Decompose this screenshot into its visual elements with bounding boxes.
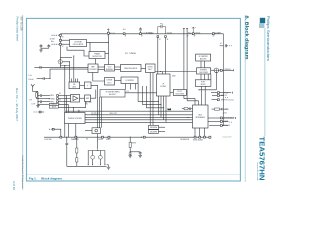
dots continuation DGND bbox=[123, 28, 126, 31]
node dot 1 bbox=[37, 98, 38, 99]
svg-text:35: 35 bbox=[59, 93, 61, 95]
pin SWPORT1b bbox=[102, 136, 104, 138]
arrow stereo to soft mute b bbox=[203, 74, 205, 80]
svg-text:DEMODULATOR: DEMODULATOR bbox=[124, 67, 138, 70]
wire tank bus into interface 2 bbox=[187, 101, 198, 105]
wire VCO to demodulator a bbox=[115, 66, 121, 68]
wire divider to divide-by-2 bbox=[93, 73, 105, 82]
svg-text:ADJUST: ADJUST bbox=[109, 93, 116, 96]
wire to stop level block bbox=[38, 103, 49, 105]
svg-text:DECODER: DECODER bbox=[176, 94, 185, 96]
svg-text:kHz: kHz bbox=[85, 104, 88, 106]
svg-text:VCCREF: VCCREF bbox=[214, 32, 221, 34]
mute amplifier block bbox=[92, 128, 101, 134]
wire demodulator to level adc bbox=[141, 67, 146, 69]
svg-text:BUSENABLE: BUSENABLE bbox=[224, 117, 235, 120]
ground bottom bbox=[107, 165, 111, 169]
svg-text:38: 38 bbox=[187, 36, 189, 38]
wire pin to oscillator 2 bbox=[61, 43, 69, 45]
wire adder to pin bbox=[218, 69, 220, 71]
wire XTAL column bbox=[59, 34, 61, 68]
adder A1 bbox=[214, 68, 219, 73]
wire to mute amp bbox=[85, 130, 92, 132]
wire bus interface bottom 1 bbox=[194, 128, 196, 136]
svg-text:DECODER: DECODER bbox=[199, 72, 208, 74]
wire down into tuning system bbox=[72, 108, 74, 113]
pin HGND bbox=[204, 136, 206, 138]
node dot 2 bbox=[37, 104, 38, 105]
svg-text:012aaa567: 012aaa567 bbox=[223, 136, 232, 138]
node dot RC bbox=[130, 151, 131, 152]
wire stereo decoder drop b bbox=[210, 74, 212, 80]
wire second bus down bbox=[66, 96, 68, 113]
wire integrator out bbox=[91, 85, 98, 127]
capacitor C1 bbox=[47, 44, 50, 48]
pin TIMEPLL bbox=[220, 69, 222, 71]
wire IF amp to stereo decoder b bbox=[203, 61, 205, 68]
FM demodulator block bbox=[121, 65, 142, 72]
pin VCCD with capacitor bbox=[140, 33, 142, 35]
wire test stub 2 bbox=[186, 28, 188, 100]
svg-text:8. Block diagram: 8. Block diagram bbox=[243, 16, 249, 60]
wire LNA to mixer bbox=[80, 97, 85, 99]
capacitor C12 bbox=[129, 153, 132, 156]
varactor Q1 bbox=[58, 60, 62, 64]
wire counter drops to IF adjust 3 bbox=[135, 84, 137, 90]
wire tuning top stub bbox=[78, 110, 80, 113]
svg-text:SWPORT1 21 kΩ: SWPORT1 21 kΩ bbox=[221, 99, 234, 101]
pin DGND with dots bbox=[123, 33, 125, 35]
svg-text:31: 31 bbox=[125, 36, 127, 38]
pin VCCREF bbox=[212, 33, 214, 35]
node dot vcca wire bbox=[108, 53, 109, 54]
wire level adc to de-emphasis 1 bbox=[149, 73, 151, 126]
svg-text:32,768: 32,768 bbox=[50, 39, 55, 41]
wire tuning bottom 1 bbox=[68, 124, 70, 138]
wire stereo decoder drop a bbox=[207, 74, 209, 80]
reference divider block bbox=[88, 64, 98, 73]
wire reference to divider bbox=[41, 66, 89, 68]
level ADC block bbox=[146, 64, 156, 73]
svg-text:MPX OUT: MPX OUT bbox=[110, 113, 117, 115]
VCO block bbox=[105, 65, 115, 72]
svg-text:16: 16 bbox=[62, 36, 64, 38]
wire oscillator output to junction bbox=[87, 43, 91, 52]
crystal oscillator block U1 bbox=[70, 40, 87, 47]
node dot AGC 2 bbox=[69, 61, 70, 62]
wire drop into IF filter bbox=[161, 72, 163, 75]
wire VCO to demodulator b bbox=[115, 68, 121, 70]
node dot staircase 2 bbox=[161, 104, 162, 105]
svg-text:PHASEFIL: PHASEFIL bbox=[71, 138, 79, 141]
svg-text:REF: REF bbox=[91, 66, 94, 68]
wire level adc to stereo decoder bbox=[155, 71, 196, 73]
wire mute amp down bbox=[97, 134, 99, 150]
wire caps common bbox=[41, 47, 49, 49]
Philips logo light square bbox=[259, 23, 264, 28]
svg-text:37: 37 bbox=[159, 39, 161, 41]
pin VCCA bbox=[107, 32, 109, 34]
VCO tank circuit L2 C6 bbox=[158, 24, 166, 34]
divide-by-2 block bbox=[105, 78, 115, 86]
LNA block with amp triangle bbox=[71, 95, 80, 103]
dashed pin stub lower left bbox=[49, 128, 61, 137]
node column bbox=[37, 92, 39, 106]
soft mute block bbox=[195, 80, 211, 87]
wire stub left of C4 bbox=[37, 78, 44, 80]
svg-text:© Koninklijke Philips Electron: © Koninklijke Philips Electronics N.V. 2… bbox=[21, 155, 24, 188]
dots continuation AFR bbox=[225, 96, 228, 99]
svg-text:DIVIDER: DIVIDER bbox=[90, 69, 98, 71]
staircase wire counter out 1 bbox=[138, 84, 158, 102]
node dots bottom bbox=[88, 164, 89, 165]
svg-text:34: 34 bbox=[59, 100, 61, 102]
wire osc bottom down left column bbox=[67, 47, 89, 57]
RC branch right: resistor R2 bbox=[129, 137, 136, 153]
pilot decoder block bbox=[173, 90, 186, 96]
tick test wire 1 bbox=[183, 27, 185, 29]
Philips logo dark square bbox=[260, 18, 265, 23]
svg-text:RFI1: RFI1 bbox=[50, 95, 54, 97]
svg-text:Philips Semiconductors: Philips Semiconductors bbox=[266, 16, 270, 61]
de-emphasis block right bbox=[149, 130, 159, 134]
svg-text:Fig 1.: Fig 1. bbox=[29, 176, 37, 180]
wire VCOTANK2 down to IF filter bbox=[165, 37, 167, 74]
dashed stub left low bbox=[34, 111, 44, 113]
long wire tuning to bus 4 bbox=[85, 121, 193, 123]
wire bus interface bottom 3 bbox=[203, 128, 205, 136]
pin PHASEFIL bbox=[75, 136, 77, 138]
svg-text:28: 28 bbox=[141, 36, 143, 38]
svg-text:LOOPSW: LOOPSW bbox=[44, 139, 52, 141]
svg-text:DIVIDE: DIVIDE bbox=[107, 80, 114, 82]
bottom rail bbox=[44, 136, 209, 138]
wire lower into divider bbox=[44, 69, 88, 78]
capacitor C7 decoupling right rail bbox=[220, 44, 228, 47]
wire IF adjust to IF filter bbox=[125, 92, 157, 94]
node dot osc to vcca line bbox=[108, 42, 109, 43]
wire adder down feedback bbox=[199, 72, 216, 90]
pin VCOTANK1 bbox=[157, 36, 159, 38]
caption separator rule bbox=[27, 174, 240, 176]
wire bus interface bottom 2 bbox=[199, 128, 201, 136]
svg-text:LEVEL: LEVEL bbox=[148, 66, 153, 68]
node dot bus wire bbox=[187, 117, 188, 118]
crystal X1 dashed connection top bbox=[52, 34, 60, 36]
wire RFGND to LNA bbox=[58, 98, 70, 100]
wire RFI2 to LNA bbox=[58, 101, 70, 103]
wire bus down to AGC 2 bbox=[68, 62, 70, 82]
stereo decoder block bbox=[197, 68, 211, 74]
dots continuation right cap bbox=[229, 44, 232, 47]
wire pin to oscillator 1 bbox=[61, 39, 69, 41]
antenna ANT1 bbox=[31, 84, 35, 91]
svg-text:DE-EMPH: DE-EMPH bbox=[150, 132, 157, 134]
node dot row3 bbox=[37, 101, 38, 102]
wire bus down left long bbox=[64, 66, 66, 138]
svg-text:Product data sheet: Product data sheet bbox=[15, 17, 19, 42]
pin row AFR bbox=[212, 95, 224, 97]
wire osc out right 1 bbox=[60, 57, 72, 59]
svg-text:Block diagram: Block diagram bbox=[41, 176, 62, 180]
loop filter branch: resistor R1 bbox=[76, 137, 78, 166]
svg-text:fIF = 225: fIF = 225 bbox=[85, 102, 91, 104]
wire level adc to de-emphasis 2 bbox=[152, 73, 154, 126]
svg-text:100 nF: 100 nF bbox=[28, 79, 33, 81]
wire osc out right 2 bbox=[63, 61, 71, 63]
wire stub left of C3 bbox=[34, 66, 40, 68]
svg-text:RFGND: RFGND bbox=[49, 98, 56, 100]
svg-text:Low-power FM stereo radio: Low-power FM stereo radio bbox=[256, 162, 259, 181]
wire tank bus into interface 1 bbox=[184, 99, 195, 105]
pin row DATA bbox=[208, 121, 228, 123]
svg-text:(VCO): (VCO) bbox=[195, 33, 200, 35]
de-emphasis block left bbox=[149, 125, 159, 129]
bus interface block bbox=[193, 105, 209, 128]
svg-text:FILTER: FILTER bbox=[160, 86, 166, 88]
RC network left of bus interface bbox=[182, 108, 193, 111]
wire ref divider to VCO b bbox=[98, 68, 105, 70]
node junction xtal bbox=[60, 67, 61, 68]
footer rule (rotated page footer) bbox=[22, 15, 24, 190]
wire mixer bottom to mute block bbox=[58, 102, 85, 108]
pin AGND bbox=[199, 136, 201, 138]
capacitor C5 on VCCD bbox=[139, 27, 142, 32]
current source branch left Q2 bbox=[88, 151, 105, 165]
phase detector block bbox=[89, 52, 105, 59]
wire divide-by-2 to counter bbox=[115, 79, 122, 81]
loop filter branch: capacitor C11 bbox=[65, 137, 68, 166]
wire tuning bottom 2 bbox=[75, 124, 77, 138]
pin LOOPSW bbox=[60, 136, 62, 138]
staircase wire counter out 2 bbox=[143, 86, 161, 105]
svg-text:17: 17 bbox=[62, 46, 64, 48]
svg-text:40: 40 bbox=[213, 36, 215, 38]
wire branch y65.6 bbox=[60, 65, 70, 67]
wire top node bbox=[36, 91, 38, 93]
wire LC bottom node bbox=[36, 98, 38, 100]
wire IF filter bottom drop 4 bbox=[165, 96, 167, 122]
svg-text:ADJUST: ADJUST bbox=[200, 58, 207, 61]
mute block small bbox=[49, 106, 58, 109]
node dot feedback bbox=[198, 89, 199, 90]
wire IF filter to pilot decoder bbox=[170, 92, 173, 94]
top supply rail bbox=[60, 34, 223, 126]
node dot rail crossing bbox=[97, 137, 98, 138]
node dot MPX bbox=[79, 111, 80, 112]
pin XTAL1 bbox=[59, 34, 61, 36]
RC network right of bus interface bbox=[212, 108, 229, 111]
pin VCC(VCO) bbox=[192, 33, 194, 35]
capacitor C4 on lower wire bbox=[43, 77, 44, 80]
wire VCCA down to phase detector bbox=[107, 34, 109, 51]
wire stereo decoder to adder bbox=[211, 69, 215, 71]
svg-text:85: 85 bbox=[86, 139, 88, 141]
wire IF filter bottom drop 3 bbox=[163, 96, 165, 120]
wire stop level to tuning bbox=[58, 104, 68, 112]
capacitor C13 bbox=[139, 152, 142, 156]
wire test stub 1 bbox=[183, 28, 185, 98]
arrow stereo to soft mute a bbox=[200, 74, 202, 80]
wire IF adjust down b bbox=[101, 97, 103, 128]
long wire tuning to bus 1 bbox=[85, 114, 193, 116]
pin row SWPORT bbox=[212, 99, 220, 101]
stop level block bbox=[49, 103, 58, 106]
RF row 3: coupling capacitor C10 bbox=[38, 100, 50, 103]
banner rule bbox=[264, 28, 266, 136]
inductor L1 bbox=[36, 92, 38, 99]
IF filter block (tall) bbox=[157, 74, 171, 96]
wire IF adjust down a bbox=[99, 97, 101, 128]
wire IF filter bottom drop 1 bbox=[158, 96, 160, 115]
wire RC to C13 bbox=[130, 151, 140, 153]
svg-text:kHz: kHz bbox=[51, 41, 54, 43]
wire soft mute down to bus 2 bbox=[204, 86, 206, 105]
node dot branch bbox=[64, 65, 65, 66]
svg-text:1 nF: 1 nF bbox=[28, 75, 31, 77]
pin RFI1 bbox=[57, 95, 59, 97]
tuning system block bbox=[65, 113, 86, 124]
counter block bbox=[121, 77, 138, 84]
svg-text:nF: nF bbox=[220, 43, 222, 45]
node junction osc out bbox=[89, 42, 90, 43]
pin row CLOCK bbox=[209, 125, 228, 127]
svg-text:SWP2: SWP2 bbox=[106, 139, 111, 141]
svg-text:BUSMODE: BUSMODE bbox=[181, 139, 190, 141]
mixer block bbox=[85, 95, 91, 102]
svg-text:9397 750 13389: 9397 750 13389 bbox=[19, 17, 21, 32]
wire counter drops to IF adjust 2 bbox=[130, 84, 132, 90]
node dots rail loop filter bbox=[66, 137, 67, 138]
pin VCOTANK2 bbox=[165, 36, 167, 38]
phase detector to ref divider bbox=[95, 59, 97, 65]
MPX wire long bbox=[65, 110, 192, 112]
svg-text:VCOT1: VCOT1 bbox=[147, 32, 152, 34]
long wire tuning to bus 2 bbox=[85, 116, 193, 118]
pin XTAL2 bbox=[59, 43, 61, 45]
header rule (right) bbox=[244, 15, 246, 182]
node dot staircase 1 bbox=[158, 101, 159, 102]
svg-text:10 nF: 10 nF bbox=[32, 103, 36, 105]
ground crystal caps bbox=[39, 48, 43, 52]
wire mixer out bbox=[91, 90, 96, 99]
supply arrow VCC(VCO) bbox=[192, 27, 196, 33]
wire AGC to integrator bbox=[80, 84, 85, 86]
wire IF filter bottom drop 2 bbox=[160, 96, 162, 117]
node dot mute wire bbox=[73, 107, 74, 108]
IF centre adjust block bbox=[196, 54, 211, 61]
node dot rail RC bbox=[130, 137, 131, 138]
svg-text:BY 2: BY 2 bbox=[108, 82, 112, 84]
crystal X1 dashed connection bottom bbox=[52, 43, 60, 45]
pin DGND bbox=[194, 136, 196, 138]
pin SWPORT2b bbox=[108, 136, 110, 138]
node dot staircase 3 bbox=[163, 107, 164, 108]
svg-text:OSCILLATOR: OSCILLATOR bbox=[73, 43, 84, 46]
wire soft mute down to bus 1 bbox=[201, 86, 203, 105]
svg-text:Rev. 02 — 30 July 2007: Rev. 02 — 30 July 2007 bbox=[15, 88, 19, 122]
capacitor C3 on reference wire bbox=[40, 66, 41, 69]
pin row AFL bbox=[211, 92, 232, 94]
integrator block bbox=[85, 82, 92, 89]
node dot rail bbox=[141, 137, 142, 138]
wire RFI1 to LNA bbox=[58, 95, 70, 97]
svg-text:6 of 40: 6 of 40 bbox=[12, 181, 16, 191]
svg-text:COUNTER: COUNTER bbox=[125, 80, 134, 82]
wire counter drops to IF adjust 1 bbox=[125, 84, 127, 90]
wire pin right tick bbox=[222, 69, 233, 71]
wire AGC top stubs bbox=[70, 79, 72, 83]
RF input row 1: coupling capacitor C9 bbox=[38, 94, 50, 97]
svg-text:SWP1: SWP1 bbox=[98, 139, 103, 141]
RF AGC block bbox=[69, 82, 80, 89]
pin rail end bbox=[209, 136, 211, 138]
bottom node wire bbox=[67, 165, 107, 167]
svg-text:39: 39 bbox=[194, 36, 196, 38]
wire ref divider to VCO a bbox=[98, 66, 105, 68]
staircase wire counter out 3 bbox=[146, 86, 163, 108]
ground C12 bbox=[128, 156, 132, 158]
svg-text:PLL TUNING: PLL TUNING bbox=[125, 53, 137, 55]
svg-text:TIMEPLL: TIMEPLL bbox=[224, 69, 231, 71]
svg-text:INTERFACE: INTERFACE bbox=[195, 116, 205, 119]
figure frame bbox=[27, 18, 241, 181]
svg-text:DE-EMPH: DE-EMPH bbox=[150, 127, 157, 129]
svg-text:DETECTOR: DETECTOR bbox=[92, 56, 102, 58]
svg-text:MUTE: MUTE bbox=[52, 107, 56, 109]
wire phase det right up bbox=[105, 53, 108, 55]
wire VCCA on to VCO bbox=[107, 52, 109, 65]
pin RFGND bbox=[57, 98, 59, 100]
node dot on y71.5 bbox=[160, 71, 161, 72]
de-emphasis stub right 1 bbox=[159, 126, 166, 128]
node junction lower wire bbox=[49, 78, 50, 79]
node dot AGC 1 bbox=[73, 55, 74, 56]
pin row BUSENABLE bbox=[208, 117, 236, 119]
de-emphasis stub right 2 bbox=[159, 130, 166, 132]
ground C13 bbox=[138, 155, 142, 157]
svg-text:BUFFER: BUFFER bbox=[106, 69, 114, 71]
pin RFI2 bbox=[57, 101, 59, 103]
pin BUSMODE bbox=[143, 136, 145, 138]
wire oscillator output right bbox=[90, 42, 108, 44]
svg-text:36: 36 bbox=[167, 39, 169, 41]
IF centre frequency adjust block bbox=[100, 90, 125, 98]
long wire tuning to bus 3 bbox=[85, 119, 193, 121]
wire antenna node bbox=[33, 91, 38, 93]
RF row 2 wire RFGND bbox=[38, 98, 50, 100]
svg-text:1 nF: 1 nF bbox=[29, 99, 32, 101]
capacitor C2 bbox=[40, 44, 43, 48]
wire VCOTANK1 down to IF filter bbox=[157, 37, 159, 74]
svg-text:CLOCK: CLOCK bbox=[224, 125, 231, 127]
svg-text:TUNING SYSTEM: TUNING SYSTEM bbox=[68, 118, 82, 120]
supply arrow VCCA bbox=[107, 29, 109, 33]
wire bus down to AGC 1 bbox=[73, 56, 75, 82]
wire IF amp to stereo decoder a bbox=[200, 61, 202, 68]
tick test wire 2 bbox=[186, 27, 188, 29]
svg-text:VCOT2: VCOT2 bbox=[167, 32, 172, 34]
dots continuation DATA bbox=[229, 121, 232, 124]
pin 32 kHz bbox=[59, 39, 61, 41]
ground antenna bbox=[36, 106, 40, 108]
